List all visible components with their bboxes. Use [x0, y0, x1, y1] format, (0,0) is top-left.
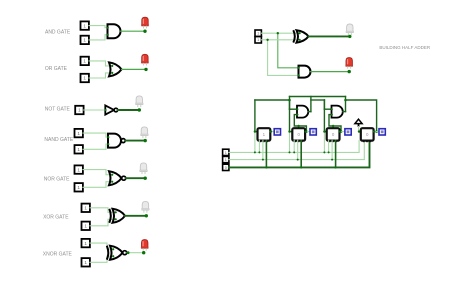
rail A top horizontal — [290, 96, 346, 98]
LED NOT demo — [136, 96, 144, 107]
LED NAND demo — [141, 127, 149, 138]
OR demo input switch A — [81, 57, 89, 65]
label OR GATE — [45, 66, 68, 72]
svg-text:1: 1 — [83, 59, 86, 64]
wire input B to G1 — [89, 35, 108, 40]
wire A branch down to AND G9 — [277, 32, 299, 68]
wire input B to G6 — [90, 219, 116, 226]
wire G3 output to LED — [118, 109, 140, 111]
wire U2 taps to bus — [293, 140, 302, 168]
LED AND demo — [141, 17, 149, 28]
rail B horizontal — [255, 99, 290, 101]
wire mid rail to GB input — [311, 100, 332, 109]
wire box2 top pin to Z — [297, 125, 299, 128]
LED NOR demo — [140, 163, 148, 174]
wire U4 taps to bus — [363, 159, 365, 161]
wire GB output up to rail A end — [343, 97, 346, 112]
wire G9 output to carry LED — [311, 71, 350, 73]
adder input switch I3 — [223, 164, 229, 170]
svg-text:1: 1 — [77, 147, 80, 152]
wire input A to G2 — [89, 61, 112, 66]
gate G3 (NOT) — [105, 105, 118, 114]
node G6 output at LED — [145, 214, 148, 217]
gate GA (AND, carry stage 2) — [296, 106, 308, 118]
svg-text:1: 1 — [83, 38, 86, 43]
wire B branch down to AND G9 — [266, 39, 298, 76]
wire input A to G4 — [83, 133, 108, 137]
NOR demo input switch B — [75, 183, 83, 191]
LED OR demo — [141, 54, 149, 65]
wire input A to G1 — [89, 26, 108, 28]
rail A left drop to gate GA input — [288, 97, 297, 110]
wire input A to G6 — [90, 208, 116, 213]
svg-text:NAND GATE: NAND GATE — [44, 137, 73, 143]
wire U3 taps to bus — [328, 140, 337, 168]
gate GB (AND, carry stage 3) — [331, 106, 343, 118]
svg-text:1: 1 — [77, 167, 80, 172]
label NAND GATE — [44, 137, 73, 143]
AND demo input switch A — [81, 21, 89, 29]
svg-text:1: 1 — [78, 108, 81, 113]
XOR demo input switch A — [82, 204, 90, 212]
AND demo input switch B — [81, 36, 89, 44]
wire input B to G4 — [83, 144, 108, 149]
svg-text:1: 1 — [77, 185, 80, 190]
output O4 (blue) — [379, 129, 385, 135]
subcircuit U1 (half adder box) — [258, 128, 271, 142]
wire G7 output to LED — [127, 251, 144, 254]
svg-text:1: 1 — [84, 260, 87, 265]
bus wire 2 — [229, 140, 364, 159]
subcircuit U3 (half adder box) — [327, 128, 340, 142]
adder input switch I2 — [223, 156, 229, 162]
svg-text:OR GATE: OR GATE — [45, 66, 68, 72]
half-adder input switch B — [255, 37, 261, 43]
bus wire 3 — [229, 140, 370, 167]
node G7 output at LED — [142, 251, 145, 254]
wire G6 output to LED — [125, 215, 146, 217]
svg-text:1: 1 — [225, 151, 227, 155]
clock arrow at stage 4 — [355, 119, 362, 133]
wire U1 taps to bus — [258, 140, 267, 168]
svg-text:1: 1 — [84, 224, 87, 229]
wire GA lower input Z — [294, 115, 307, 133]
NAND demo input switch B — [75, 145, 83, 153]
wire input B to G7 — [90, 256, 113, 262]
output O1 (blue) — [274, 129, 280, 135]
gate G1 (AND) — [107, 24, 121, 38]
wire U2 output to result O2 — [305, 130, 311, 132]
rail vertical stage 1 — [254, 100, 258, 153]
rail vertical stage 3 — [323, 100, 327, 153]
wire GA output up to rail — [308, 97, 311, 112]
node G5 output at LED — [144, 177, 147, 180]
XNOR demo input switch B — [82, 258, 90, 266]
wire input B to G5 — [83, 182, 112, 188]
gate G8 (XOR) sum — [293, 30, 308, 42]
wire B to XOR G8 — [261, 39, 299, 41]
wire G4 output to LED — [125, 140, 145, 142]
node G2 output at LED — [144, 68, 147, 71]
subcircuit U4 (half adder box) — [361, 128, 374, 142]
output O3 (blue) — [345, 129, 351, 135]
svg-text:NOR GATE: NOR GATE — [44, 177, 70, 183]
rail vertical stage 2 — [288, 100, 292, 153]
wire box3 top pin to Z — [332, 125, 334, 128]
NAND demo input switch A — [75, 129, 83, 137]
wire input A to G5 — [83, 170, 112, 175]
wire A to XOR G8 — [261, 32, 299, 34]
wire GB lower input Z — [329, 115, 342, 133]
wire input A to G7 — [90, 243, 113, 249]
svg-text:1: 1 — [225, 158, 227, 162]
LED XOR demo — [142, 201, 150, 212]
wire G8 output to sum LED — [309, 35, 350, 37]
wire U4 output to result O4 — [373, 130, 379, 132]
gate G2 (OR) — [109, 62, 122, 76]
svg-text:1: 1 — [77, 131, 80, 136]
svg-text:XOR GATE: XOR GATE — [43, 215, 69, 221]
svg-text:1: 1 — [84, 206, 87, 211]
node G4 output at LED — [144, 139, 147, 142]
node sum output — [348, 35, 351, 38]
LED XNOR demo — [141, 240, 149, 251]
node G1 output at LED — [143, 30, 146, 33]
gate G9 (AND) carry — [298, 66, 311, 78]
label XNOR GATE — [43, 252, 73, 258]
label BUILDING HALF ADDER — [379, 45, 431, 50]
wire input B to G2 — [89, 73, 112, 78]
XNOR demo input switch A — [82, 239, 90, 247]
wire U1 output to result O1 — [270, 130, 275, 132]
svg-text:NOT GATE: NOT GATE — [45, 107, 71, 113]
wire G1 output to LED — [121, 30, 146, 32]
gate G6 (XOR) — [109, 209, 125, 223]
XOR demo input switch B — [82, 222, 90, 230]
LED sum (off) — [346, 24, 354, 35]
svg-text:BUILDING HALF ADDER: BUILDING HALF ADDER — [379, 45, 431, 50]
gate G5 (NOR) — [109, 171, 126, 185]
adder input switch I1 — [223, 149, 229, 155]
NOT input switch — [75, 106, 83, 114]
svg-text:1: 1 — [257, 32, 259, 36]
label AND GATE — [45, 30, 71, 36]
half-adder input switch A — [255, 30, 261, 36]
svg-text:1: 1 — [257, 38, 259, 42]
svg-text:1: 1 — [83, 76, 86, 81]
svg-text:1: 1 — [84, 241, 87, 246]
svg-text:AND GATE: AND GATE — [45, 30, 71, 36]
bus wire 1 — [229, 140, 359, 152]
gate G4 (NAND) — [107, 134, 125, 148]
rail C to stage 4 — [344, 99, 378, 133]
wire NOT input to G3 — [84, 109, 106, 111]
subcircuit U2 (half adder box) — [292, 128, 305, 142]
OR demo input switch B — [81, 74, 89, 82]
gate G7 (XNOR) — [107, 246, 127, 260]
svg-text:1: 1 — [83, 23, 86, 28]
svg-text:0: 0 — [225, 166, 227, 170]
label XOR GATE — [43, 215, 69, 221]
label NOR GATE — [44, 177, 70, 183]
output O2 (blue) — [310, 129, 316, 135]
wire G5 output to LED — [126, 177, 145, 179]
LED carry (lit) — [345, 58, 353, 69]
label NOT GATE — [45, 107, 71, 113]
node carry output — [348, 70, 351, 73]
wire U3 output to result O3 — [339, 130, 345, 132]
wire G2 output to LED — [122, 68, 147, 70]
node G3 output at LED — [138, 108, 141, 111]
NOR demo input switch A — [75, 165, 83, 173]
svg-text:XNOR GATE: XNOR GATE — [43, 252, 73, 258]
